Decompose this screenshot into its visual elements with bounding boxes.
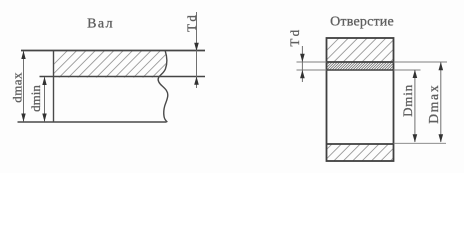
extension line right at hole axis level xyxy=(394,142,447,144)
hole body rectangle xyxy=(327,38,394,161)
svg-text:Dmin: Dmin xyxy=(400,84,415,117)
Dmax dimension line xyxy=(440,62,442,142)
svg-text:Вал: Вал xyxy=(87,17,114,32)
svg-text:dmin: dmin xyxy=(28,85,43,112)
Td down arrow (hole) xyxy=(300,54,305,62)
extension line left of band top edge xyxy=(297,61,327,63)
dmin lower arrow xyxy=(42,114,46,122)
shaft tolerance band bottom line (dmin level) xyxy=(40,76,206,78)
Dmin lower arrow xyxy=(413,134,418,142)
Dmin upper arrow xyxy=(413,70,418,78)
Td down arrow (shaft) xyxy=(194,43,199,51)
svg-text:dmax: dmax xyxy=(9,72,24,103)
Dmin dimension line xyxy=(414,70,416,142)
hatch of shaft tolerance band xyxy=(40,50,198,78)
dmin upper arrow xyxy=(42,77,46,85)
dmax upper arrow xyxy=(21,51,25,59)
hatch of hole upper material xyxy=(314,37,415,63)
shaft top line (dmax level) xyxy=(21,50,205,52)
Td up arrow (hole) xyxy=(300,70,305,78)
Td dimension line (hole) xyxy=(301,46,303,82)
Dmax upper arrow xyxy=(439,62,444,70)
dense hatch of hole tolerance band Td xyxy=(318,61,403,71)
svg-text:Отверстие: Отверстие xyxy=(330,15,394,30)
shaft bottom line xyxy=(18,121,167,123)
Dmax lower arrow xyxy=(439,134,444,142)
hole band top edge (Dmax level) xyxy=(327,61,394,63)
extension line left of band bottom edge xyxy=(297,69,327,71)
hole bottom material top edge xyxy=(327,143,394,145)
dmin dimension line xyxy=(44,77,46,122)
dmax dimension line xyxy=(23,51,25,122)
hatch of hole bottom material xyxy=(314,134,417,162)
hole band bottom edge (Dmin level) xyxy=(327,69,394,71)
svg-text:Td: Td xyxy=(287,28,302,47)
shaft left edge xyxy=(53,51,55,123)
Td dimension line (shaft) xyxy=(196,12,198,88)
dmax lower arrow xyxy=(21,114,25,122)
svg-text:Td: Td xyxy=(184,13,199,32)
svg-text:Dmax: Dmax xyxy=(426,84,441,124)
extension line right of band bottom edge xyxy=(394,69,421,71)
extension line right of band top edge xyxy=(394,61,448,63)
wavy break line (right edge of shaft) xyxy=(158,51,168,122)
Td up arrow (shaft) xyxy=(194,77,199,85)
